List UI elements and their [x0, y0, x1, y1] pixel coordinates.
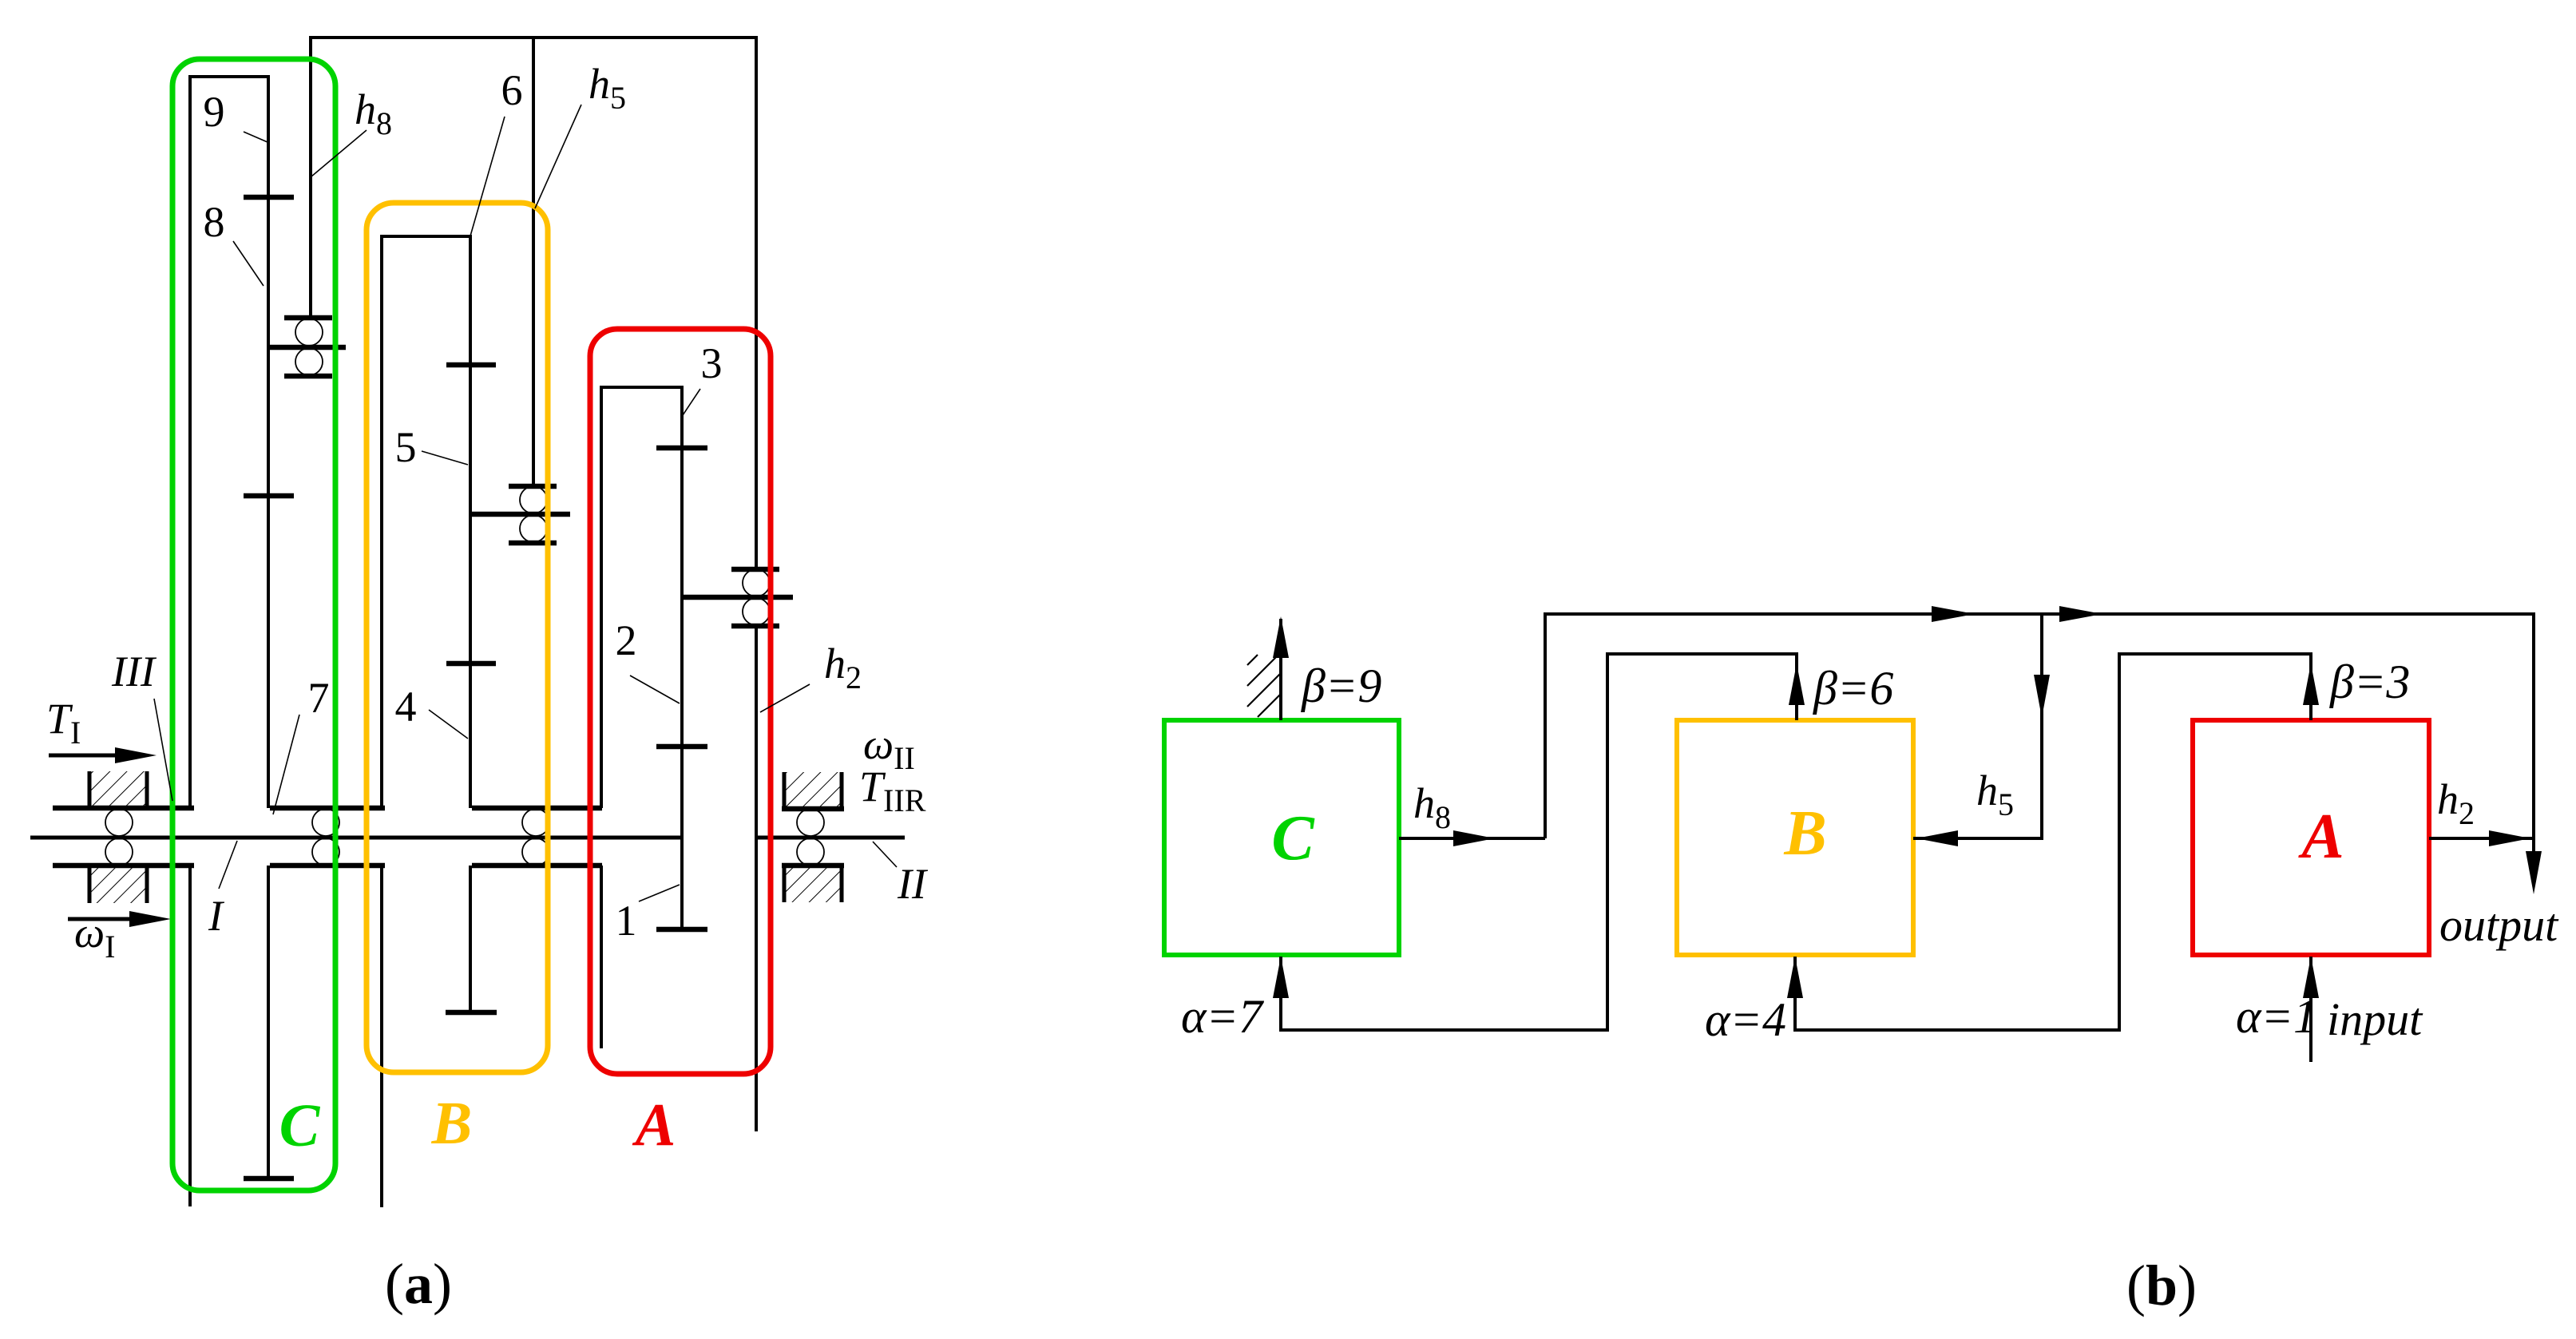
leader 4: [429, 710, 468, 739]
torque T_I arrow: [49, 747, 157, 763]
leader 5: [422, 451, 468, 465]
wire h8 out of C: [1399, 830, 1545, 846]
label I: [208, 892, 225, 940]
stage B yellow outline: [367, 203, 548, 1072]
label A stage: [632, 1091, 676, 1159]
label 3: [701, 339, 723, 387]
leader h5: [535, 105, 581, 208]
frame / carrier link top rail: [309, 36, 758, 39]
label beta=3: [2329, 656, 2410, 708]
svg-text:β=9: β=9: [1301, 660, 1381, 712]
bearing on shaft I (C-B): [312, 809, 339, 866]
label T_I: [46, 695, 81, 751]
svg-text:A: A: [2297, 802, 2344, 872]
ring gear 6 rim: [380, 235, 472, 808]
mesh sun1-planet2: [656, 744, 707, 750]
label T_IIR: [859, 763, 926, 818]
leader h8: [311, 130, 367, 176]
svg-text:5: 5: [395, 423, 417, 471]
carrier h8 vertical link: [309, 38, 312, 316]
svg-text:B: B: [1783, 798, 1826, 869]
ring gear 9 lower leg: [188, 866, 192, 1206]
frame support lower-left hatched block: [89, 868, 147, 903]
svg-text:3: 3: [701, 339, 723, 387]
wire h5 drop: [2034, 614, 2050, 838]
mesh sun4-planet5: [446, 661, 496, 667]
sun gear 1: [656, 927, 707, 933]
carrier h2 vertical link: [755, 38, 758, 569]
svg-text:β=6: β=6: [1813, 662, 1893, 715]
svg-text:(b): (b): [2126, 1254, 2197, 1317]
bearing of planet 2 on carrier h2: [683, 569, 793, 626]
wire h8 riser: [1544, 612, 1547, 838]
label II: [897, 860, 929, 908]
block B label: [1783, 798, 1826, 869]
svg-text:2: 2: [616, 616, 637, 664]
bearing of shaft III: [105, 809, 133, 866]
leader 7: [273, 715, 299, 814]
svg-text:output: output: [2439, 899, 2559, 951]
label omega_I: [74, 909, 115, 965]
svg-text:α=4: α=4: [1705, 993, 1786, 1046]
label III: [111, 648, 157, 695]
caption (a): [385, 1252, 452, 1316]
block A box: [2193, 720, 2429, 955]
wire output drop: [2526, 614, 2542, 894]
leader I: [219, 841, 237, 889]
svg-text:(a): (a): [385, 1252, 452, 1316]
svg-text:β=3: β=3: [2329, 656, 2410, 708]
label 9: [204, 88, 225, 136]
leader 3: [683, 389, 700, 415]
svg-text:1: 1: [616, 897, 637, 945]
leader 2: [630, 675, 680, 703]
arrow alpha4 into B: [1787, 957, 1803, 1032]
label alpha=4: [1705, 993, 1786, 1046]
leader 1: [639, 885, 680, 901]
block C box: [1164, 720, 1399, 955]
arrow alpha1 input: [2303, 957, 2319, 1062]
arrow beta9 grounded: [1273, 616, 1289, 720]
ring gear 3 rim: [600, 386, 684, 808]
mesh ring3-planet2: [656, 446, 707, 451]
bearing of planet 8 on carrier h8: [268, 318, 346, 376]
frame support upper-left hatched block: [89, 771, 147, 806]
label alpha=7: [1181, 990, 1265, 1043]
label 2: [616, 616, 637, 664]
label h2 a: [824, 640, 862, 695]
ring gear 6 lower leg: [380, 866, 383, 1207]
svg-text:III: III: [111, 648, 157, 695]
label input: [2327, 993, 2423, 1045]
svg-text:A: A: [632, 1091, 676, 1159]
leader 6: [470, 117, 505, 239]
label h8: [355, 85, 392, 141]
speed omega_I arrow: [68, 911, 171, 927]
output shaft h2 link: [755, 626, 758, 1131]
svg-text:II: II: [897, 860, 929, 908]
leader III: [154, 699, 172, 801]
svg-text:B: B: [431, 1090, 473, 1157]
mesh ring9-planet8: [244, 195, 294, 200]
carrier h5 vertical link: [532, 38, 535, 486]
label C stage: [279, 1092, 321, 1159]
wire h2 out of A: [2429, 830, 2535, 846]
label omega_II: [863, 720, 915, 776]
ring gear 9 rim: [188, 75, 270, 808]
svg-text:I: I: [208, 892, 225, 940]
stage C green outline: [172, 59, 335, 1190]
svg-text:8: 8: [204, 198, 225, 246]
leader h2: [760, 684, 810, 712]
mesh sun7-planet8: [244, 493, 294, 499]
plates between planet5 shaft and ring3 leg: [472, 808, 602, 866]
block A label: [2297, 802, 2344, 872]
svg-text:α=1: α=1: [2236, 990, 2317, 1043]
label h5 (b): [1976, 767, 2014, 822]
frame support upper-right hatched cup: [782, 772, 844, 809]
leader 8: [233, 241, 264, 286]
label B stage: [431, 1090, 473, 1157]
bearing on shaft I (B-A): [522, 809, 549, 866]
label beta=9: [1301, 660, 1381, 712]
wire beta3 link: [1793, 652, 2319, 1032]
label output: [2439, 899, 2559, 951]
svg-text:6: 6: [501, 66, 523, 114]
wire h5 into B: [1913, 830, 2043, 846]
svg-text:C: C: [279, 1092, 321, 1159]
shaft I axis: [30, 836, 682, 840]
label alpha=1: [2236, 990, 2317, 1043]
arrowhead top rail 1: [1932, 606, 1975, 622]
label 6: [501, 66, 523, 114]
block C label: [1271, 803, 1315, 874]
arrow alpha7 into C: [1273, 957, 1289, 1032]
ground hatch at beta9: [1247, 655, 1281, 717]
bearing of shaft II: [797, 809, 824, 866]
label 5: [395, 423, 417, 471]
label h2 (b): [2437, 775, 2475, 831]
shaft III flange plates: [53, 808, 194, 866]
label 7: [308, 674, 330, 722]
stage A red outline: [590, 329, 771, 1074]
block B box: [1677, 720, 1913, 955]
plates between planet8 shaft and ring6 leg: [270, 808, 385, 866]
leader II: [873, 842, 897, 867]
leader 9: [244, 132, 268, 142]
label 4: [395, 683, 417, 731]
shaft II axis: [756, 836, 905, 840]
svg-text:α=7: α=7: [1181, 990, 1265, 1043]
mesh ring6-planet5: [446, 362, 496, 368]
label h8 (b): [1413, 779, 1451, 835]
label h5: [589, 60, 626, 116]
planet 2 / sun 1 shaft: [680, 387, 684, 929]
wire top rail: [1544, 612, 2535, 616]
svg-text:9: 9: [204, 88, 225, 136]
svg-text:4: 4: [395, 683, 417, 731]
wire beta6 link: [1279, 652, 1805, 1032]
label 1: [616, 897, 637, 945]
label 8: [204, 198, 225, 246]
label beta=6: [1813, 662, 1893, 715]
bearing of planet 5 on carrier h5: [470, 486, 570, 543]
svg-text:C: C: [1271, 803, 1315, 874]
svg-text:7: 7: [308, 674, 330, 722]
sun gear 7: [244, 866, 294, 1179]
caption (b): [2126, 1254, 2197, 1317]
arrowhead top rail 2: [2059, 606, 2102, 622]
svg-text:input: input: [2327, 993, 2423, 1045]
sun gear 4: [446, 866, 497, 1012]
frame support lower-right hatched cup: [782, 866, 844, 902]
ring gear 3 lower leg: [600, 866, 603, 1048]
